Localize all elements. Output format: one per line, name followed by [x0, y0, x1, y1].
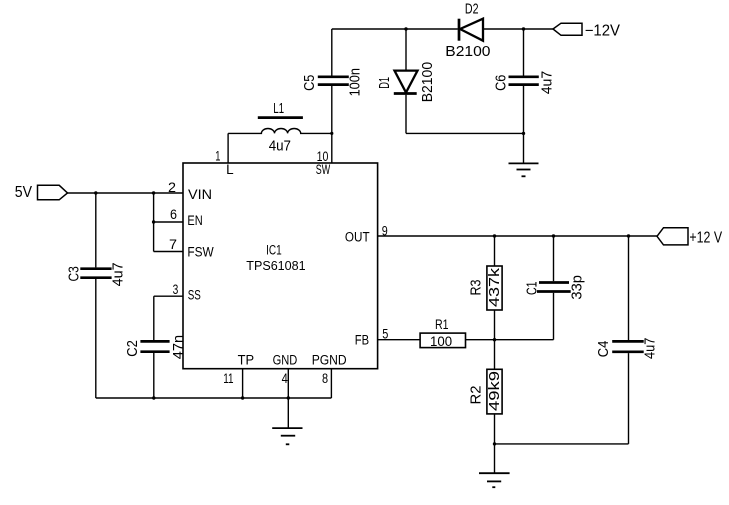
svg-text:EN: EN	[187, 213, 202, 228]
svg-text:8: 8	[322, 371, 328, 386]
svg-text:4u7: 4u7	[540, 71, 556, 95]
svg-text:+12 V: +12 V	[689, 230, 722, 247]
svg-text:3: 3	[173, 282, 179, 297]
svg-text:PGND: PGND	[312, 352, 347, 367]
svg-text:100: 100	[430, 334, 452, 349]
svg-text:GND: GND	[273, 352, 298, 367]
svg-text:49k9: 49k9	[487, 371, 503, 411]
svg-text:6: 6	[170, 207, 177, 222]
svg-text:9: 9	[382, 223, 388, 238]
svg-text:4u7: 4u7	[111, 262, 127, 286]
svg-text:OUT: OUT	[345, 229, 370, 244]
svg-text:D2: D2	[465, 2, 479, 18]
svg-text:5V: 5V	[15, 184, 33, 201]
svg-text:SS: SS	[188, 288, 201, 303]
svg-text:C2: C2	[125, 340, 141, 357]
svg-text:7: 7	[169, 237, 177, 252]
svg-text:TP: TP	[238, 352, 255, 367]
svg-text:5: 5	[382, 327, 388, 342]
svg-text:R3: R3	[469, 280, 485, 296]
svg-text:L1: L1	[273, 101, 284, 117]
svg-text:TPS61081: TPS61081	[246, 259, 305, 273]
svg-text:−12V: −12V	[585, 23, 621, 40]
svg-text:4u7: 4u7	[642, 338, 658, 359]
svg-text:437k: 437k	[487, 267, 503, 307]
svg-text:B2100: B2100	[420, 62, 436, 102]
svg-text:L: L	[226, 162, 234, 177]
svg-text:2: 2	[168, 180, 176, 195]
svg-text:C5: C5	[302, 75, 318, 91]
svg-text:B2100: B2100	[445, 44, 490, 60]
svg-text:47n: 47n	[171, 335, 187, 359]
svg-text:1: 1	[215, 148, 220, 163]
svg-text:4u7: 4u7	[269, 139, 291, 155]
svg-text:IC1: IC1	[266, 243, 282, 258]
svg-text:FSW: FSW	[187, 245, 214, 260]
svg-text:D1: D1	[377, 77, 393, 89]
svg-text:C6: C6	[494, 75, 510, 91]
svg-text:11: 11	[223, 371, 233, 386]
svg-text:SW: SW	[316, 162, 331, 177]
svg-text:100n: 100n	[348, 68, 364, 96]
svg-text:R1: R1	[435, 317, 449, 332]
svg-text:C4: C4	[596, 341, 612, 358]
svg-text:R2: R2	[469, 386, 485, 405]
svg-text:VIN: VIN	[188, 187, 212, 202]
svg-text:C1: C1	[525, 282, 541, 296]
svg-text:FB: FB	[355, 333, 369, 348]
svg-text:4: 4	[282, 371, 289, 386]
svg-text:33p: 33p	[570, 275, 586, 300]
svg-text:C3: C3	[66, 266, 82, 281]
